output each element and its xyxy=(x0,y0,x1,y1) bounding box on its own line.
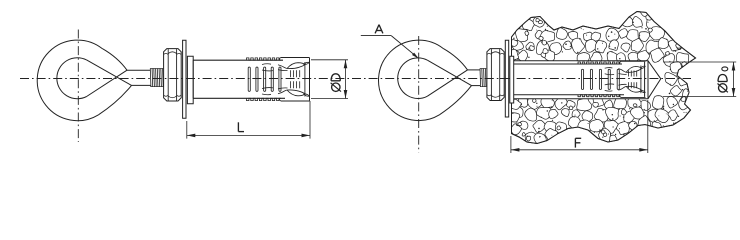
anchor flange left view xyxy=(187,56,193,104)
anchor tip right view xyxy=(641,62,645,97)
eye bolt ring right view xyxy=(379,40,472,120)
hex nut left view xyxy=(164,49,182,101)
centerline main horizontal axis xyxy=(20,78,691,80)
expansion fingers right view xyxy=(605,61,646,97)
shank left view xyxy=(127,70,151,85)
threaded rod left view xyxy=(150,68,163,87)
dimension D left view xyxy=(311,60,348,99)
shank right view xyxy=(468,70,481,86)
centerline eye vertical left view xyxy=(77,30,79,143)
anchor teeth right view xyxy=(629,71,637,89)
drilled hole xyxy=(512,61,661,99)
expansion slots left view xyxy=(248,67,281,91)
eye bolt ring left view xyxy=(37,40,131,121)
expansion slots right view xyxy=(582,69,620,89)
dimension D0 xyxy=(663,62,736,97)
washer left view xyxy=(183,40,186,118)
hex nut right view xyxy=(487,49,504,101)
anchor ribs right view xyxy=(578,62,621,97)
centerline eye vertical right view xyxy=(418,36,420,153)
anchor flange right view xyxy=(510,56,514,103)
anchor ribs left view xyxy=(247,58,281,101)
anchor sleeve body right view xyxy=(514,64,624,95)
dimension L xyxy=(187,101,310,139)
anchor tip left view xyxy=(305,58,310,101)
dimension F xyxy=(511,100,648,153)
threaded rod right view xyxy=(480,68,486,87)
label A with leader xyxy=(361,25,419,59)
washer right view xyxy=(505,40,508,117)
anchor sleeve body left view xyxy=(193,60,285,98)
anchor teeth left view xyxy=(290,70,299,88)
concrete wall with aggregate texture xyxy=(506,8,696,147)
centerline through hole xyxy=(500,78,691,80)
expansion fingers left view xyxy=(262,58,310,102)
